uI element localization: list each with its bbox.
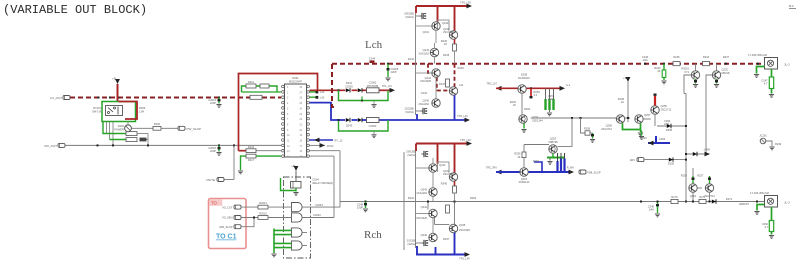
transistor Q241	[432, 22, 440, 30]
svg-text:D272: D272	[726, 197, 733, 201]
svg-text:Lch: Lch	[365, 39, 383, 51]
transistor FET 2SJ (bottom)	[420, 108, 427, 114]
svg-text:17-ICR-358-2LR: 17-ICR-358-2LR	[748, 53, 767, 57]
svg-text:D243: D243	[346, 124, 353, 128]
transistor Q344	[429, 209, 437, 217]
svg-text:D204: D204	[313, 178, 320, 182]
svg-text:2SC3325: 2SC3325	[443, 30, 454, 34]
transistor Q246	[432, 99, 440, 107]
capacitor C252 green stub	[641, 131, 643, 136]
svg-text:2SJ2(B): 2SJ2(B)	[407, 238, 417, 242]
weave Rch solid	[427, 202, 429, 210]
capacitor bank blue x3	[557, 153, 559, 162]
svg-text:C244: C244	[369, 57, 376, 61]
capacitor bank green x3	[545, 88, 547, 99]
transistor Q243	[430, 48, 438, 56]
transistor Q231 mute	[695, 64, 697, 71]
svg-text:2.2: 2.2	[534, 93, 538, 97]
dashed weave bus to Q244	[428, 64, 432, 73]
svg-text:VO_CUT: VO_CUT	[222, 205, 233, 209]
svg-text:Q241: Q241	[423, 30, 430, 34]
IC D201 pin bubbles	[282, 85, 310, 157]
svg-text:C2043: C2043	[315, 203, 323, 207]
svg-text:DAN202U: DAN202U	[518, 76, 530, 80]
svg-text:2SC3325: 2SC3325	[443, 172, 454, 176]
diode D272 on line	[712, 199, 716, 203]
resistor R245	[454, 39, 456, 44]
svg-text:R347: R347	[443, 237, 450, 241]
transistor Q343	[429, 188, 437, 196]
svg-text:TP2_L3V: TP2_L3V	[460, 1, 471, 5]
svg-text:D255: D255	[666, 128, 673, 132]
resistor R292	[153, 126, 161, 130]
svg-text:2SA1162: 2SA1162	[419, 102, 430, 106]
svg-text:R252: R252	[524, 107, 531, 111]
wire red TRC_LIV	[496, 86, 502, 91]
svg-text:2SA1162: 2SA1162	[419, 51, 430, 55]
svg-text:Q242: Q242	[442, 21, 449, 25]
svg-text:Q346: Q346	[421, 233, 428, 237]
svg-text:220P: 220P	[391, 70, 397, 74]
svg-text:R247: R247	[439, 82, 446, 86]
diode D241	[346, 88, 350, 92]
svg-text:ARV: ARV	[630, 158, 636, 162]
svg-text:LO_OUT: LO_OUT	[50, 96, 62, 100]
diode D242	[358, 88, 362, 92]
wire dashed bus Lch left	[70, 97, 281, 99]
svg-text:R246: R246	[443, 53, 450, 57]
wire relay pin downs	[106, 122, 108, 134]
transistor Q341	[429, 164, 437, 172]
svg-text:1.8K: 1.8K	[139, 109, 145, 113]
transistor Q342	[449, 173, 457, 181]
transistor Q252 dual	[519, 115, 527, 123]
svg-text:R236: R236	[673, 55, 680, 59]
svg-text:JC201: JC201	[759, 134, 767, 138]
svg-text:C2003: C2003	[369, 124, 377, 128]
capacitor C248 on Rch line	[365, 201, 367, 203]
resistor R2014	[258, 205, 268, 209]
transistor Q253	[549, 145, 557, 153]
resistor R345	[454, 181, 456, 186]
wire to PW_SLOP	[131, 127, 153, 129]
resistor R2002	[367, 88, 380, 93]
svg-text:B-2: B-2	[789, 4, 794, 8]
svg-text:M5218: M5218	[722, 71, 730, 75]
component value labels	[199, 27, 749, 241]
svg-text:TRC_LIV: TRC_LIV	[486, 82, 497, 86]
svg-text:R217: R217	[248, 158, 255, 162]
svg-text:R237: R237	[723, 55, 730, 59]
svg-text:R257: R257	[697, 174, 704, 178]
node junction bus x726	[725, 63, 727, 65]
svg-text:R2015: R2015	[259, 212, 267, 216]
capacitor C2025 on bus	[387, 63, 389, 65]
svg-text:1/4A: 1/4A	[649, 208, 655, 212]
transistor Q245	[449, 87, 457, 95]
svg-text:(VARIABLE OUT BLOCK): (VARIABLE OUT BLOCK)	[3, 3, 147, 17]
svg-text:2SA1162: 2SA1162	[417, 191, 428, 195]
svg-text:TP2_L4V: TP2_L4V	[460, 138, 471, 142]
svg-text:Q256: Q256	[606, 124, 613, 128]
resistor R202	[126, 138, 137, 142]
svg-text:R234: R234	[703, 55, 710, 59]
IC D201 M5222AFP	[285, 84, 307, 157]
capacitor C240 on line	[657, 202, 659, 214]
wire blue T stub	[648, 142, 670, 144]
svg-text:2SK2(B): 2SK2(B)	[406, 149, 416, 153]
resistor R273 green	[771, 207, 773, 221]
wire Q251 emitter down	[521, 93, 523, 115]
svg-text:(S2CH): (S2CH)	[407, 153, 416, 157]
main top dashed bus	[332, 63, 765, 65]
wire blue Lch low	[310, 103, 346, 120]
wire green bar under Q253	[552, 153, 554, 157]
wire green relay tail	[103, 122, 126, 134]
svg-text:LBR: LBR	[664, 122, 669, 126]
resistor R236 on bus	[673, 62, 680, 66]
wire Q261 Q262 down to Rch line	[692, 192, 694, 201]
resistor R240 green	[663, 63, 665, 65]
svg-text:R264: R264	[470, 196, 477, 200]
svg-text:2SC3325: 2SC3325	[416, 216, 427, 220]
transistor Q244	[432, 69, 440, 77]
wire green relay gnd	[281, 178, 297, 191]
svg-text:100P: 100P	[548, 97, 554, 101]
svg-text:R2016: R2016	[681, 67, 689, 71]
transistor Q256	[616, 115, 624, 123]
svg-text:D292: D292	[118, 124, 125, 128]
wire gray rail y118	[531, 117, 630, 119]
resistor R238 green	[771, 69, 773, 77]
wire gate1 output	[302, 206, 340, 208]
wire green jack2 gnd	[757, 205, 765, 211]
svg-text:D256: D256	[668, 162, 675, 166]
capacitor C2018 on RO line	[218, 145, 220, 151]
svg-text:JL-2: JL-2	[784, 201, 790, 205]
diode D243	[346, 118, 350, 122]
resistor R234 on bus	[703, 62, 710, 66]
wire diode arrow y154	[686, 153, 707, 155]
svg-text:(S2CH): (S2CH)	[405, 110, 414, 114]
svg-text:R256: R256	[681, 174, 688, 178]
wire blue jog RY02	[534, 162, 542, 172]
svg-text:TO C1: TO C1	[216, 234, 237, 241]
node junction on bus	[98, 97, 100, 99]
svg-text:220P: 220P	[210, 149, 216, 153]
transistor Q262	[709, 176, 711, 184]
transistor Q242	[449, 31, 457, 39]
wire Q231 Q232 base feeds	[684, 75, 691, 94]
svg-text:JL-1: JL-1	[784, 63, 790, 67]
svg-text:Q342: Q342	[439, 163, 446, 167]
svg-text:R342: R342	[408, 196, 415, 200]
wire Q253 base feed left	[524, 144, 549, 146]
wire main vertical x686	[685, 94, 687, 169]
svg-text:RO_OUT: RO_OUT	[44, 144, 57, 148]
svg-text:4.7: 4.7	[764, 82, 768, 86]
svg-text:TP2_L4V: TP2_L4V	[459, 257, 470, 261]
svg-text:Q345: Q345	[459, 223, 466, 227]
svg-text:R2014: R2014	[259, 201, 267, 205]
wire gate2 output	[302, 217, 334, 219]
wire gray left rails Rch	[415, 151, 417, 248]
svg-text:Q243: Q243	[423, 48, 430, 52]
wire diode row y126	[657, 125, 686, 127]
svg-text:R271: R271	[699, 195, 706, 199]
relay RY201 body	[106, 106, 123, 116]
svg-text:R270: R270	[671, 195, 678, 199]
svg-text:Q255: Q255	[661, 104, 668, 108]
svg-text:2SD2144: 2SD2144	[532, 118, 543, 122]
svg-text:R345: R345	[441, 182, 448, 186]
svg-text:2SK2(B): 2SK2(B)	[404, 11, 414, 15]
gate 1	[292, 203, 303, 212]
svg-text:TO: TO	[211, 201, 217, 206]
transistor Q261	[692, 168, 694, 176]
resistor R201	[126, 132, 137, 136]
resistor R2003	[367, 118, 380, 123]
svg-text:C2026: C2026	[345, 84, 353, 88]
transistor FET 2SK (top)	[419, 13, 426, 19]
wire red Lch out	[310, 89, 346, 91]
wire green loop under blue	[339, 120, 389, 131]
transistor FET 2SK Rch	[421, 151, 428, 157]
connector PW_SLOP	[178, 126, 185, 130]
svg-text:Rch: Rch	[364, 229, 382, 241]
wire red Rch top rail	[416, 143, 469, 145]
relay RY201 green outline	[102, 102, 136, 122]
transistor Q255	[651, 106, 659, 114]
wire red Lch top rail	[416, 5, 469, 7]
diode D203 block	[140, 138, 147, 142]
capacitor C254 red stub	[654, 94, 657, 96]
wire staircase Q242 base	[438, 20, 450, 31]
wire gate3 gate4 stubs	[302, 232, 307, 234]
bus vertical at x332	[332, 64, 337, 107]
resistor R213	[250, 95, 262, 99]
wire gray interconnects Rch	[432, 158, 434, 164]
svg-text:17-ICR-358-2LR: 17-ICR-358-2LR	[750, 191, 769, 195]
wire gray interconnects Lch	[435, 30, 437, 43]
transistor Q232 mute	[716, 64, 718, 71]
transistor FET 2SJ Rch	[421, 240, 428, 246]
svg-text:R262: R262	[533, 159, 540, 163]
svg-text:VO_SEN: VO_SEN	[222, 216, 233, 220]
transistor Q345	[449, 224, 457, 232]
resistor R348	[446, 205, 450, 213]
gate 4	[292, 241, 303, 250]
svg-text:Q254: Q254	[521, 177, 528, 181]
svg-text:TRC_RIV: TRC_RIV	[486, 165, 497, 169]
svg-text:R239: R239	[775, 142, 782, 146]
svg-text:SW-1-B: SW-1-B	[92, 109, 101, 113]
resistor row pin13 red	[239, 150, 247, 152]
svg-text:C243: C243	[421, 91, 428, 95]
svg-text:2SC2712: 2SC2712	[661, 107, 672, 111]
connector TM8_SLOP	[579, 170, 586, 174]
svg-text:(S2CH): (S2CH)	[407, 242, 416, 246]
svg-text:D258: D258	[521, 73, 528, 77]
wire Q253 right lead	[558, 118, 573, 146]
wire red relay loop	[119, 102, 138, 120]
wire RY02 stub	[310, 144, 325, 146]
wire blue Lch bottom verticals	[416, 114, 418, 120]
svg-text:Q257: Q257	[644, 113, 651, 117]
svg-text:R242: R242	[408, 57, 415, 61]
gate 3	[292, 228, 303, 237]
svg-text:C253: C253	[659, 137, 666, 141]
transistor Q254 on blue line	[520, 168, 528, 176]
IC D201 pin numbers	[287, 87, 303, 159]
transistor Q251 on line	[518, 85, 526, 93]
svg-text:VY1: VY1	[684, 70, 689, 74]
wire blue RY_12	[310, 139, 333, 141]
svg-text:1K: 1K	[657, 69, 660, 73]
svg-text:(S2CH): (S2CH)	[405, 15, 414, 19]
wire RO_OUT line	[65, 144, 281, 146]
svg-text:VAR_SLOP: VAR_SLOP	[219, 225, 233, 229]
svg-text:L42: L42	[320, 96, 325, 100]
svg-text:2SB798: 2SB798	[548, 140, 558, 144]
svg-text:1/4A: 1/4A	[642, 58, 648, 62]
svg-text:D201: D201	[292, 76, 299, 80]
svg-text:1K: 1K	[444, 42, 447, 46]
resistor R211	[246, 84, 256, 88]
relay coil box	[291, 182, 302, 189]
svg-text:Q343: Q343	[421, 187, 428, 191]
svg-text:R216: R216	[248, 145, 255, 149]
wire gray left rail Lch	[415, 13, 417, 115]
lamp D292 POWER	[127, 122, 129, 125]
wire green comb gates	[273, 229, 275, 251]
node junction bus x645	[644, 63, 646, 65]
svg-text:R292: R292	[154, 122, 161, 126]
svg-text:POWER: POWER	[114, 127, 124, 131]
wire green row2	[110, 139, 127, 141]
svg-text:2SJ2(B): 2SJ2(B)	[405, 106, 415, 110]
wire red +B feed	[117, 84, 119, 102]
resistor R212	[260, 84, 269, 88]
wire blue TRC_RIV	[496, 170, 502, 175]
svg-text:R_MV: R_MV	[567, 165, 574, 169]
gate 2	[292, 213, 303, 222]
wire Rch line right	[457, 201, 765, 203]
svg-text:220P: 220P	[210, 101, 216, 105]
svg-text:RELAY DRIVE(R): RELAY DRIVE(R)	[313, 181, 334, 185]
node junction on bus	[118, 97, 120, 99]
svg-text:2SC3325: 2SC3325	[420, 79, 431, 83]
svg-text:4.7: 4.7	[764, 225, 768, 229]
svg-text:M5222AFP: M5222AFP	[289, 80, 302, 84]
svg-text:TP2_L4V: TP2_L4V	[457, 114, 468, 118]
wire Rch signal line	[340, 201, 457, 203]
svg-text:RY201: RY201	[93, 106, 101, 110]
svg-text:Q232: Q232	[722, 68, 729, 72]
svg-text:Q344: Q344	[421, 205, 428, 209]
svg-text:TM8_SLOP: TM8_SLOP	[587, 171, 601, 175]
svg-text:+B: +B	[112, 77, 116, 81]
svg-text:Q253: Q253	[550, 137, 557, 141]
IC D204 dash-dot outline	[284, 177, 311, 258]
svg-text:C2042: C2042	[313, 213, 321, 217]
svg-text:R258: R258	[584, 127, 591, 131]
svg-text:L41: L41	[459, 83, 464, 87]
svg-text:MUTE: MUTE	[207, 178, 216, 182]
diode D244	[358, 118, 362, 122]
svg-text:RY02: RY02	[327, 144, 334, 148]
resistor R270 on line	[671, 199, 678, 203]
svg-text:Q246: Q246	[423, 98, 430, 102]
wire blue Rch bottom rail	[417, 246, 467, 255]
svg-text:2SC2712: 2SC2712	[601, 127, 612, 131]
svg-text:1K: 1K	[621, 100, 624, 104]
svg-text:2SC3325: 2SC3325	[459, 228, 470, 232]
resistor R255	[522, 152, 526, 158]
wire green stubs right pins	[310, 91, 316, 93]
resistor R253 red stub	[530, 88, 532, 96]
node junction on bus	[109, 97, 111, 99]
svg-text:MTF600B: MTF600B	[367, 84, 379, 88]
transistor Q346	[429, 233, 437, 241]
svg-text:RY_12: RY_12	[335, 138, 343, 142]
svg-text:A-1: A-1	[566, 83, 571, 87]
connector JC201	[760, 138, 766, 144]
wire green U pair	[623, 123, 641, 129]
svg-text:1K: 1K	[513, 103, 516, 107]
resistor R2015	[258, 216, 268, 220]
svg-text:2SD2144: 2SD2144	[519, 180, 530, 184]
svg-text:R211: R211	[248, 80, 255, 84]
wire green upper loop	[242, 86, 278, 92]
wire green loop under red	[339, 90, 389, 100]
wire red loop around IC	[239, 74, 318, 151]
wire green jack1 gnd	[757, 67, 765, 74]
resistor R248	[446, 79, 450, 87]
box TO C1	[209, 199, 247, 249]
svg-text:1-WR: 1-WR	[703, 147, 710, 151]
resistor R258 jog	[581, 118, 586, 133]
svg-text:A6BCR7: A6BCR7	[739, 202, 750, 206]
svg-text:PW_SLOP: PW_SLOP	[187, 127, 202, 131]
transistor Q257	[635, 115, 643, 123]
resistor R271 on line	[699, 199, 706, 203]
svg-text:R203: R203	[139, 106, 146, 110]
resistor row pin14 green	[241, 156, 247, 170]
capacitor C2013 on bus	[218, 97, 220, 99]
svg-text:100P: 100P	[357, 206, 363, 210]
svg-text:TPL_LIV: TPL_LIV	[382, 84, 392, 88]
svg-text:R249: R249	[458, 66, 465, 70]
svg-text:1K: 1K	[517, 155, 520, 159]
